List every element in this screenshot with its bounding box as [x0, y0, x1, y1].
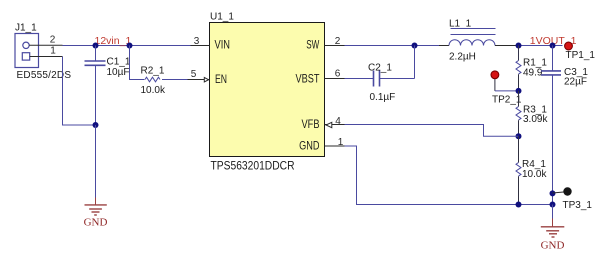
wire VBST branch vertical [414, 46, 416, 79]
svg-text:2: 2 [50, 35, 56, 46]
capacitor C2 [374, 71, 380, 87]
R3 pin stub top [518, 91, 520, 107]
svg-text:TP2_1: TP2_1 [492, 94, 522, 105]
wire C3 bottom to ground net [552, 76, 554, 205]
node junction TP3 tap [550, 190, 556, 196]
R1 pin stub bottom [518, 74, 520, 91]
test point TP2 [491, 71, 499, 79]
node junction SW/VBST [412, 43, 418, 49]
J1 pin 1 stub [30, 56, 63, 58]
ground right [541, 219, 565, 238]
U1 pin 4 VFB [325, 124, 345, 126]
resistor R3 [516, 107, 521, 121]
wire output to TP1 [519, 45, 563, 47]
op IC U1 TPS563201DDCR [210, 23, 325, 157]
svg-text:GND: GND [541, 240, 565, 252]
svg-text:22µF: 22µF [564, 77, 587, 88]
inductor L1 [449, 29, 496, 46]
svg-text:VBST: VBST [296, 74, 320, 86]
test point TP3 [563, 187, 571, 195]
connector J1_1 [15, 34, 39, 68]
TP2 pin stub [494, 79, 496, 91]
U1 pin 3 VIN [191, 45, 210, 47]
svg-text:5: 5 [191, 69, 197, 80]
wire pin2 to VIN [63, 45, 191, 47]
node junction C1 bottom [93, 122, 99, 128]
svg-text:C1_1: C1_1 [107, 57, 131, 68]
wire to GND left [95, 125, 97, 198]
TP3 pin stub [553, 192, 564, 193]
capacitor C1 [85, 46, 106, 126]
svg-text:ED555/2DS: ED555/2DS [17, 70, 72, 81]
svg-text:GND: GND [299, 141, 319, 153]
U1 pin 5 EN [188, 79, 210, 81]
svg-text:2.2µH: 2.2µH [449, 52, 476, 63]
L1 pin stub left [439, 45, 449, 47]
svg-text:J1_1: J1_1 [15, 23, 37, 34]
svg-text:TP3_1: TP3_1 [563, 200, 593, 211]
node junction R4 bottom [516, 202, 522, 208]
wire R2 to EN [162, 79, 188, 81]
svg-text:3.09k: 3.09k [523, 114, 548, 125]
J1 pin 2 stub [29, 44, 62, 46]
resistor R2 [145, 77, 160, 82]
U1 pin 2 SW [325, 45, 345, 47]
U1 pin 6 VBST [325, 78, 345, 80]
R4 pin stub bottom [518, 176, 520, 204]
svg-text:1: 1 [338, 137, 344, 148]
resistor R1 [516, 61, 521, 75]
svg-text:TPS563201DDCR: TPS563201DDCR [211, 161, 295, 173]
node junction VFB [516, 133, 522, 139]
svg-text:SW: SW [306, 40, 319, 52]
L1 pin stub right [495, 45, 519, 47]
svg-text:10.0k: 10.0k [522, 169, 547, 180]
wire C2 right to branch [380, 78, 415, 80]
svg-text:R2_1: R2_1 [141, 66, 165, 77]
node junction R1/R3 [516, 88, 522, 94]
wire VFB run [345, 125, 519, 137]
svg-text:1: 1 [50, 46, 56, 57]
svg-text:TP1_1: TP1_1 [566, 50, 596, 61]
svg-text:EN: EN [215, 74, 227, 86]
svg-text:VIN: VIN [215, 40, 231, 52]
svg-text:L1_1: L1_1 [449, 18, 472, 29]
ground left [85, 198, 107, 216]
capacitor C3 [541, 71, 561, 75]
R1 pin stub top [518, 46, 520, 61]
U1 pin 1 GND [325, 145, 345, 147]
wire SW to L1 [345, 45, 440, 47]
svg-text:0.1µF: 0.1µF [370, 92, 396, 103]
svg-text:4: 4 [335, 116, 341, 127]
wire pin1 vertical [63, 57, 96, 126]
svg-text:10µF: 10µF [107, 67, 130, 78]
svg-text:3: 3 [194, 36, 200, 47]
R4 pin stub top [518, 136, 520, 162]
svg-text:U1_1: U1_1 [210, 12, 234, 23]
R3 pin stub bottom [518, 120, 520, 136]
svg-text:VFB: VFB [302, 119, 320, 131]
node junction C3 top [550, 43, 556, 49]
node junction R1 top [516, 43, 522, 49]
wire EN branch vertical [130, 46, 145, 80]
wire VBST to C2 left [345, 78, 374, 80]
wire C3 top [552, 46, 554, 71]
svg-text:12vin_1: 12vin_1 [95, 35, 132, 47]
svg-text:GND: GND [84, 217, 108, 229]
node junction at C1 top [93, 43, 99, 49]
wire GND pin run [345, 146, 553, 205]
resistor R4 [516, 163, 521, 177]
svg-text:10.0k: 10.0k [141, 85, 166, 96]
wire TP2 to node [495, 90, 516, 92]
wire to GND right [552, 205, 554, 219]
node junction bottom right [550, 202, 556, 208]
svg-text:49.9: 49.9 [523, 68, 543, 79]
svg-text:6: 6 [335, 69, 341, 80]
node junction at EN branch [127, 43, 133, 49]
svg-text:2: 2 [335, 36, 341, 47]
test point TP1 [565, 42, 573, 50]
svg-text:C2_1: C2_1 [368, 63, 392, 74]
